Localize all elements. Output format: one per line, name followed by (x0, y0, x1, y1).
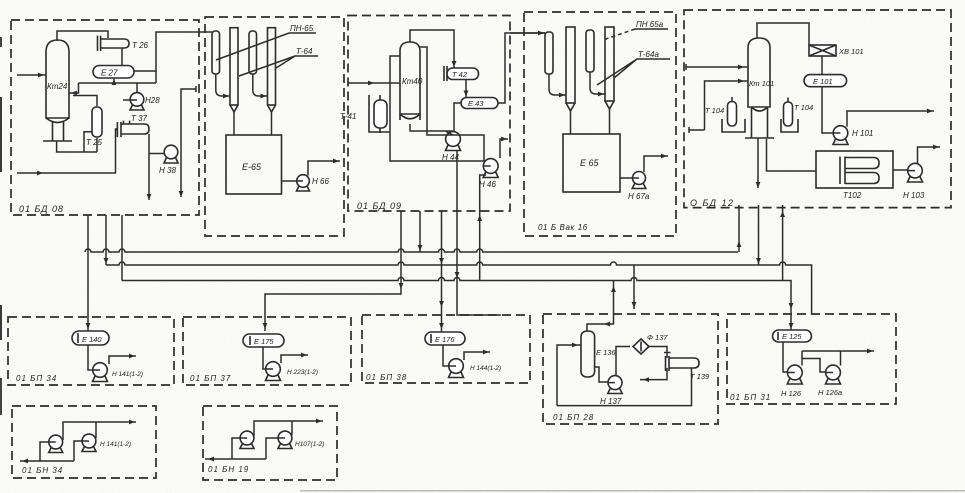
pump centre stubs (50, 100, 916, 442)
vessel E43 (461, 98, 498, 109)
wire Kt101 base to T102 (767, 139, 817, 171)
wire E43 riser to box4 (498, 33, 545, 103)
column Kt101 (745, 38, 774, 138)
svg-text:Т-64: Т-64 (296, 47, 313, 56)
tank E65 (563, 134, 620, 192)
column T-64a no.2 (605, 27, 614, 134)
svg-text:Т 37: Т 37 (131, 114, 148, 123)
vessel E27 (93, 66, 134, 79)
svg-text:01 БД 08: 01 БД 08 (19, 204, 64, 214)
heater PN-65a no.2 (586, 30, 605, 96)
wire interpump link (802, 359, 826, 373)
unit box 01 BN 34 (12, 406, 156, 478)
column T-64 no.2 (268, 28, 276, 135)
pump N38 (159, 145, 178, 175)
svg-text:01 БП 34: 01 БП 34 (16, 374, 57, 383)
label PN-65 with leader (216, 24, 316, 60)
wire E65 to N67a (620, 177, 633, 179)
wire inlet 2 into Kt101 (689, 81, 748, 133)
wire N46 discharge out right (500, 139, 508, 158)
svg-text:Кт40: Кт40 (402, 77, 423, 86)
wire Kt101 bottoms down arrow (757, 138, 759, 188)
scan artifact bottom edge (300, 490, 965, 492)
svg-text:Н 144(1-2): Н 144(1-2) (470, 365, 501, 372)
wire inlet 1 into Kt101 (686, 64, 748, 70)
wire bus2 down to box BP28 (633, 265, 635, 309)
heater PN-65 no.1 (212, 31, 230, 98)
wire box3 to E176 (441, 211, 443, 332)
wire E27 right riser to box2 (134, 32, 212, 71)
svg-text:Т 25: Т 25 (86, 138, 103, 147)
reboiler T25 (86, 107, 103, 147)
wire K24 bottoms to T25 (57, 132, 97, 152)
wire discharge header (63, 422, 136, 440)
pump N141 (93, 363, 144, 382)
svg-text:01 БП 37: 01 БП 37 (190, 374, 231, 383)
wire product header y83 (79, 82, 157, 84)
svg-text:ПН-65: ПН-65 (290, 24, 314, 33)
wire pump N44 drop to box edge (457, 150, 501, 315)
wire box3 to E175 (265, 211, 401, 331)
svg-text:Н 46: Н 46 (479, 180, 496, 189)
wire E-65 to N66 (282, 180, 297, 182)
wire right edge drop line (181, 86, 196, 197)
svg-text:01 БП 31: 01 БП 31 (730, 393, 771, 402)
vessel E176 (425, 332, 465, 345)
wire E175 to pump (263, 347, 266, 369)
wire E27 bottom stub (113, 78, 115, 83)
air cooler XB101 (809, 45, 864, 56)
wire E176 to pump (443, 345, 449, 366)
svg-text:Н 141(1-2): Н 141(1-2) (100, 441, 131, 448)
svg-text:Н 126а: Н 126а (818, 388, 842, 397)
unit box O BD 12 (684, 10, 951, 208)
column T-64 no.1 (230, 28, 238, 135)
svg-text:Т 104: Т 104 (705, 106, 724, 115)
pump N103 (903, 163, 925, 200)
svg-text:01 БН 19: 01 БН 19 (208, 465, 249, 474)
svg-text:Н 103: Н 103 (903, 191, 925, 200)
unit box 01 BD 08 (11, 20, 199, 215)
wire N101 discharge out (847, 111, 934, 127)
wire N126a discharge riser (840, 351, 842, 366)
unit box 01 B Vak 16 (524, 12, 676, 236)
exchanger T102 (816, 151, 893, 200)
pump N126 (781, 365, 802, 398)
svg-text:Н107(1-2): Н107(1-2) (295, 441, 324, 448)
svg-text:Е 175: Е 175 (254, 337, 274, 346)
wire reflux to K24 (69, 83, 79, 93)
svg-text:Т-64а: Т-64а (638, 50, 659, 59)
wire T139 bottom loop (557, 368, 692, 406)
svg-text:О БД 12: О БД 12 (690, 198, 735, 208)
svg-text:Е 136: Е 136 (596, 348, 616, 357)
svg-text:Н 101: Н 101 (852, 129, 873, 138)
wire bus3 up to pump N46 (480, 175, 486, 281)
pump N66 (297, 175, 330, 191)
unit box 01 BP 34 (8, 317, 174, 385)
svg-text:Т 104: Т 104 (794, 103, 813, 112)
exchanger T-41 (340, 95, 390, 133)
wire T42 to E43 (465, 80, 467, 98)
pump N141-2 (82, 434, 131, 451)
svg-text:Н28: Н28 (145, 96, 160, 105)
wire T102 to N103 (893, 169, 908, 171)
svg-text:ХВ 101: ХВ 101 (838, 47, 864, 56)
heater PN-65 no.2 (249, 31, 268, 98)
exchanger T104 left (705, 97, 745, 132)
wire E136 up to bus3 (587, 281, 614, 332)
bus line 3 (122, 278, 791, 331)
unit box 01 BP 28 (543, 314, 718, 424)
wire T25 vapor return (73, 96, 97, 107)
pump N137 (600, 376, 622, 406)
pump N144 (449, 359, 502, 378)
wire E140 to pump (88, 345, 93, 370)
bus line 2 (106, 262, 812, 315)
wire N126 discharge riser (801, 351, 803, 366)
wire feed into E136 with recycle (557, 345, 581, 406)
wire riser down to product header (155, 71, 157, 83)
wire N137 to filter F137 (616, 347, 630, 376)
unit box 01 BP 38 (362, 315, 530, 383)
wire suction header (20, 441, 82, 461)
svg-text:01 БД 09: 01 БД 09 (357, 201, 402, 211)
unit box 2 (PN-65 / E-65) (205, 17, 344, 236)
wire header to N28 (123, 83, 137, 100)
svg-text:Е 65: Е 65 (580, 158, 600, 168)
heat exchanger T37 (117, 114, 149, 137)
wire outlet header (802, 350, 874, 352)
wire K24 top to T26 (57, 31, 108, 41)
label T-64 with leaders (239, 47, 318, 76)
unit box 01 BN 19 (203, 406, 337, 480)
filter F137 (633, 333, 668, 354)
wire F137 to T139 (649, 347, 671, 359)
column T-64a no.1 (566, 27, 575, 134)
vessel E175 (243, 334, 284, 347)
heater PN-65a no.1 (545, 32, 566, 97)
unit box 01 BD 09 (348, 16, 510, 212)
svg-text:Н 67а: Н 67а (628, 192, 650, 201)
wire inlet from box3 (510, 32, 545, 34)
pump N223 (266, 362, 319, 381)
label PN 65a with leader (603, 20, 668, 40)
vessel E140 (72, 331, 109, 345)
wire box3 to bus1 (419, 211, 421, 252)
wire XB101 to E101 (821, 56, 823, 75)
wire discharge header (254, 421, 323, 436)
wire T139 return left (640, 368, 667, 380)
pump N44 (442, 132, 461, 162)
condenser T42 (444, 66, 479, 81)
svg-text:Н 126: Н 126 (781, 389, 802, 398)
svg-text:Т 42: Т 42 (452, 70, 468, 79)
wire Kt40 top to T42 (410, 30, 454, 68)
vessel E125 (773, 330, 812, 342)
svg-text:Ф 137: Ф 137 (647, 333, 668, 342)
svg-text:Н 66: Н 66 (312, 177, 329, 186)
wire N223 discharge (281, 355, 308, 363)
wire E125 to pump N126 (783, 342, 788, 372)
wire N144 discharge (464, 352, 490, 360)
wire E136 to pump N137 (595, 367, 609, 382)
svg-text:Е 176: Е 176 (435, 335, 455, 344)
pump N28 (130, 93, 160, 110)
vessel E101 (804, 75, 847, 87)
wire BD12 bottoms to bus2 (758, 205, 760, 265)
pump N67a (628, 172, 650, 202)
pump N101 (833, 126, 873, 145)
svg-text:Кт24: Кт24 (47, 82, 68, 91)
wire E101 to N101 (822, 87, 833, 133)
svg-text:Т 26: Т 26 (132, 41, 149, 50)
svg-text:Е 140: Е 140 (82, 335, 102, 344)
scan artifact left edge (0, 37, 2, 47)
svg-text:Н 38: Н 38 (159, 166, 176, 175)
wire bus3 up to box BD12 (782, 205, 784, 281)
wire T26 to E27 (121, 48, 123, 66)
svg-text:Е 27: Е 27 (101, 69, 118, 78)
svg-text:Е-65: Е-65 (242, 162, 262, 172)
svg-text:Е 125: Е 125 (782, 332, 802, 341)
wire E43 to pump N44 (454, 103, 461, 131)
wire feed into K24 (17, 74, 46, 76)
svg-text:01 БН 34: 01 БН 34 (22, 466, 63, 475)
wire N103 discharge out (918, 147, 941, 164)
exchanger T139 (666, 356, 711, 381)
column Kt40 (400, 42, 423, 120)
svg-text:ПН 65а: ПН 65а (636, 20, 664, 29)
exchanger T104 right (781, 98, 813, 133)
wire circulation loop downcomer (390, 47, 484, 161)
pump N46 (479, 159, 498, 189)
svg-text:Н 137: Н 137 (600, 397, 622, 406)
svg-text:Кт 101: Кт 101 (749, 79, 774, 88)
label T-64a with leaders (597, 50, 670, 85)
wire inlet bottom left to T37 (17, 129, 117, 173)
svg-text:01 БП 38: 01 БП 38 (366, 373, 407, 382)
wire T37 down and to N38 (149, 134, 164, 200)
wire box1 to bus3 (121, 215, 123, 281)
unit box 01 BP 37 (183, 317, 351, 385)
column E136 (581, 331, 616, 377)
pump N141-1 (49, 435, 63, 452)
svg-text:Е 43: Е 43 (468, 99, 484, 108)
svg-text:Н 223(1-2): Н 223(1-2) (287, 369, 318, 376)
pump N107-1 (240, 431, 254, 448)
tank E-65 (226, 135, 282, 194)
wire Kt40 bottoms to N44 (410, 124, 453, 131)
column K24 (43, 40, 72, 141)
wire N66 discharge out (308, 161, 340, 176)
pump N126a (818, 365, 842, 397)
svg-text:Т-41: Т-41 (340, 112, 356, 121)
svg-text:01 Б Вак 16: 01 Б Вак 16 (538, 223, 588, 232)
wire N141 discharge (109, 356, 136, 364)
wire suction header (205, 438, 278, 459)
svg-text:Н 141(1-2): Н 141(1-2) (112, 371, 143, 378)
wire feed into Kt40 (348, 82, 400, 84)
wire box1 to E140 (87, 215, 89, 331)
svg-text:01 БП 28: 01 БП 28 (553, 413, 594, 422)
wire bus1 up to box BD12 (738, 205, 740, 252)
wire Kt101 top to XB101 (757, 23, 809, 45)
wire box1 to bus2 (105, 215, 107, 265)
svg-text:Е 101: Е 101 (813, 77, 833, 86)
wire N67a discharge out (644, 156, 668, 172)
svg-text:Т102: Т102 (843, 191, 862, 200)
pump N107-2 (278, 431, 324, 448)
unit box 01 BP 31 (727, 314, 896, 404)
svg-text:Т 139: Т 139 (690, 372, 710, 381)
bus line 1 (85, 249, 738, 252)
heat exchanger T26 (98, 36, 149, 51)
